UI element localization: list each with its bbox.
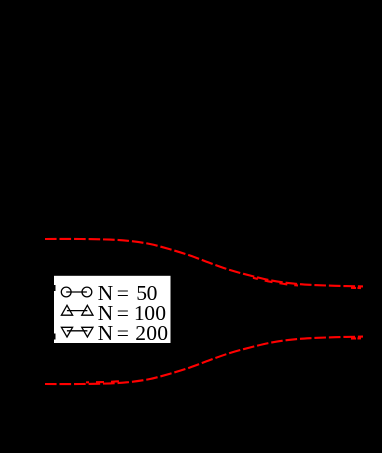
svg-text:N = 200: N = 200 (98, 321, 168, 345)
